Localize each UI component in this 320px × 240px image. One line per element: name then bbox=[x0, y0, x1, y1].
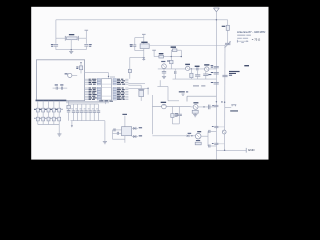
capacitor C13 bbox=[214, 83, 219, 84]
label C8 bbox=[195, 66, 200, 67]
label C14 bbox=[229, 75, 232, 76]
capacitor C28 bbox=[209, 105, 210, 110]
text GND bbox=[248, 148, 256, 152]
IC U2 left pins bbox=[85, 79, 101, 101]
IC U2 body bbox=[101, 79, 111, 100]
label indicator bbox=[65, 73, 68, 74]
wire top rail bbox=[56, 19, 228, 21]
capacitor C1 bbox=[54, 45, 58, 50]
resistor R13 ladder bbox=[50, 101, 58, 112]
wire ground run bbox=[216, 150, 246, 151]
ground GND1 bbox=[69, 51, 73, 53]
wire 5V rail bbox=[149, 44, 225, 46]
capacitor C10 bbox=[203, 71, 208, 79]
label net DAC bbox=[122, 114, 127, 115]
label net above U2 bbox=[110, 77, 115, 78]
wire mic bottom bbox=[172, 123, 179, 125]
capacitor C17 bbox=[113, 132, 122, 135]
power flag VCC1 bbox=[85, 30, 89, 44]
wire tank rail bbox=[224, 45, 226, 151]
antenna ANT1 bbox=[214, 8, 220, 12]
power flag VCC2 bbox=[142, 34, 146, 44]
label C5 bbox=[130, 44, 133, 47]
wire RF ground rail bbox=[173, 78, 217, 80]
label Q2 bbox=[185, 64, 190, 65]
label C3 bbox=[55, 84, 58, 85]
label bus nets bbox=[99, 100, 113, 101]
capacitor C12 bbox=[214, 73, 219, 74]
dipole element bbox=[237, 40, 248, 43]
resistor R8 bbox=[171, 107, 174, 124]
diode D5 bbox=[187, 135, 196, 138]
wire U2 feed right bbox=[130, 57, 144, 78]
label C10 bbox=[208, 74, 211, 75]
wire DAC to filter bbox=[124, 116, 126, 127]
transistor Q3a bbox=[205, 67, 209, 71]
power flag VCC3 bbox=[152, 50, 156, 56]
label D4 bbox=[139, 135, 142, 136]
label C32 bbox=[212, 125, 214, 128]
ground GND7 bbox=[162, 76, 166, 78]
connector P1 bbox=[222, 130, 226, 134]
capacitor C27 bbox=[214, 105, 218, 106]
label element note bbox=[241, 41, 244, 44]
ground GND4 bbox=[103, 142, 107, 144]
trimmer capacitor CV1 bbox=[225, 41, 231, 48]
wire emitter return bbox=[157, 80, 179, 101]
label L1 bbox=[222, 26, 226, 27]
text antenna note bbox=[237, 30, 266, 34]
wire bias rail bbox=[154, 56, 181, 58]
transistor Q6 bbox=[193, 105, 198, 110]
button SW1 bbox=[39, 112, 44, 125]
button SW0 bbox=[34, 112, 39, 125]
wire pin row a bbox=[128, 82, 145, 84]
wire cap bank bottom bbox=[71, 120, 105, 122]
wire audio out bbox=[191, 106, 217, 107]
switch SW6 bbox=[225, 105, 237, 108]
capacitor C14 bbox=[222, 75, 227, 76]
resistor R14 ladder bbox=[55, 101, 62, 112]
capacitor C18 bbox=[208, 130, 216, 133]
label right note bbox=[244, 65, 249, 66]
label C13 bbox=[211, 82, 213, 83]
wire pin row b bbox=[128, 84, 141, 86]
wire crystal center tap bbox=[71, 40, 72, 51]
diode D4 bbox=[132, 135, 138, 138]
capacitor C9 bbox=[195, 70, 200, 79]
capacitor C33 bbox=[214, 143, 224, 144]
wire oscillator bottom bbox=[56, 49, 86, 51]
label U3 bbox=[141, 42, 147, 43]
symbol audio source bbox=[182, 94, 185, 95]
relay coil bbox=[195, 142, 201, 145]
wire ladder bottom bbox=[38, 124, 59, 126]
resistor R9 column bbox=[67, 101, 71, 121]
label R8 C15 bbox=[175, 113, 178, 116]
label net AUDIO bbox=[179, 91, 188, 92]
crystal X1 bbox=[56, 36, 86, 41]
resistor R3 inside U1 bbox=[79, 62, 82, 73]
capacitor C5 bypass bbox=[133, 38, 144, 51]
video letterbox background bbox=[0, 0, 300, 168]
label C2 bbox=[89, 44, 92, 47]
label Q1 bbox=[161, 61, 165, 62]
bus dark segment on U1 bottom bbox=[36, 99, 67, 101]
wire RF signal bbox=[158, 68, 217, 70]
transistor Q5 block bbox=[138, 85, 144, 101]
svg-text:Antenna 87 - 108 MHz: Antenna 87 - 108 MHz bbox=[237, 30, 266, 34]
capacitor C8 bbox=[197, 67, 198, 70]
text 75 ohm bbox=[252, 37, 260, 41]
capacitor C19 bbox=[208, 145, 216, 148]
label D5 bbox=[188, 133, 192, 134]
label R3 bbox=[76, 67, 78, 70]
label matching note bbox=[237, 37, 248, 40]
wire filter bottom bbox=[113, 136, 125, 143]
label Q3a bbox=[204, 64, 209, 65]
ground GND6 bbox=[245, 148, 247, 153]
button SW4 bbox=[55, 112, 60, 125]
resistor R4 bbox=[128, 69, 131, 72]
microphone MIC1 bbox=[162, 104, 167, 109]
loop with C6 bbox=[171, 49, 182, 57]
transistor Q2 bbox=[186, 66, 190, 70]
transistor Q3 bbox=[195, 133, 201, 139]
label X1 value bbox=[69, 34, 74, 35]
wire filter left bbox=[104, 121, 106, 142]
diode D1 bbox=[142, 51, 145, 61]
relay K1 bbox=[192, 110, 198, 113]
wire pin row c bbox=[128, 88, 148, 95]
button SW3 bbox=[50, 112, 55, 125]
wire mic rail bbox=[152, 95, 190, 134]
arrow marker bbox=[71, 121, 73, 128]
button SW2 bbox=[45, 112, 50, 125]
ground GND3 bbox=[193, 113, 197, 117]
svg-text:GND: GND bbox=[248, 148, 256, 152]
capacitor C16 bbox=[114, 128, 115, 131]
capacitor bank C20-C26 bbox=[71, 104, 100, 121]
label C11 bbox=[211, 65, 214, 68]
schematic white sheet bbox=[31, 7, 268, 160]
wire left drop to crystal bbox=[55, 20, 57, 44]
wire collector bbox=[201, 131, 208, 146]
label C4 bbox=[60, 84, 63, 85]
capacitor C15 bbox=[177, 107, 182, 124]
label Q6 bbox=[193, 102, 198, 103]
capacitor C31 bbox=[175, 69, 176, 79]
regulator U3 body bbox=[140, 44, 149, 49]
label C6 bbox=[171, 46, 176, 48]
indicator circle inside U1 bbox=[68, 73, 77, 77]
label Q3 bbox=[197, 131, 201, 132]
resistor R11 ladder bbox=[39, 101, 47, 112]
svg-text:= 75 Ω: = 75 Ω bbox=[252, 37, 260, 41]
capacitor C11 bbox=[214, 66, 219, 67]
label Q3 value bbox=[196, 140, 200, 141]
capacitor C2 bbox=[84, 45, 88, 50]
text Vout note bbox=[229, 71, 240, 74]
MCU U1 box bbox=[36, 60, 84, 101]
filter F1 body bbox=[122, 127, 132, 136]
wire antenna rail bbox=[216, 12, 217, 160]
label SW6 bbox=[230, 110, 238, 111]
wire filter top bbox=[113, 130, 122, 139]
bus wires bbox=[66, 101, 109, 104]
label C33 bbox=[212, 142, 214, 145]
wire audio in bbox=[152, 135, 186, 137]
label D3 bbox=[139, 127, 142, 128]
resistor R5 bbox=[159, 55, 164, 58]
capacitor C32 bbox=[214, 126, 224, 129]
label C1 bbox=[51, 44, 54, 47]
label R6 bbox=[167, 61, 170, 62]
wire U1 to U2 bbox=[85, 73, 110, 79]
label R5 bbox=[159, 53, 164, 54]
diode D3 bbox=[132, 127, 138, 130]
junction marks bbox=[216, 101, 226, 103]
label MIC1 bbox=[161, 102, 166, 103]
label C12 bbox=[211, 72, 213, 73]
resistor R10 ladder bbox=[34, 101, 42, 112]
resistor R6 bbox=[170, 57, 173, 69]
label impedance note bbox=[237, 34, 251, 37]
resistor R7 bbox=[190, 69, 193, 79]
junction bbox=[191, 68, 192, 69]
label pin names bbox=[193, 85, 205, 86]
wires across U2 body bbox=[101, 84, 111, 104]
capacitor C4 bbox=[61, 87, 67, 90]
capacitor C30 bbox=[162, 69, 166, 76]
IC U2 right pins bbox=[113, 79, 128, 101]
capacitor C3 bbox=[53, 87, 62, 90]
box U5 outline bbox=[187, 96, 216, 101]
resistor R12 ladder bbox=[45, 101, 53, 112]
ground GND5 bbox=[57, 125, 61, 137]
inductor L1 bbox=[226, 20, 229, 44]
label C27 bbox=[212, 104, 214, 107]
transistor Q1 bbox=[162, 64, 167, 69]
